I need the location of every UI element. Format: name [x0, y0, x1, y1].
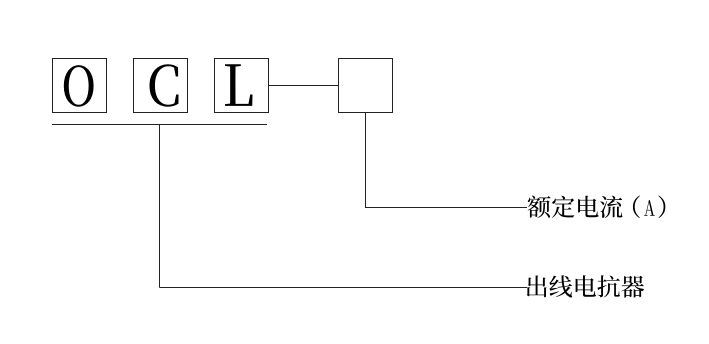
label text char 电	[576, 275, 596, 297]
wire connector box3 to box4	[269, 85, 339, 87]
label text char （	[633, 196, 640, 219]
letter L	[225, 64, 253, 106]
letter C	[150, 64, 179, 106]
wire horizontal to rated-current label	[365, 207, 527, 209]
label text char 线	[549, 275, 572, 297]
underline under OCL boxes	[52, 124, 267, 126]
box 4 (rated current cell)	[339, 59, 393, 113]
wire horizontal to reactor label	[160, 287, 528, 289]
label text char 抗	[597, 275, 619, 297]
wire vertical from underline	[159, 125, 161, 288]
box 3 (letter L cell)	[215, 59, 269, 113]
label text char ）	[658, 196, 665, 219]
wire vertical from box4 bottom	[365, 113, 367, 208]
label text char 电	[578, 196, 598, 218]
label text char A	[644, 200, 655, 216]
label text char 出	[527, 275, 547, 297]
box 2 (letter C cell)	[134, 59, 188, 113]
box 1 (letter O cell)	[53, 59, 107, 113]
label text char 流	[600, 196, 622, 218]
letter O	[64, 65, 94, 107]
label text char 额	[528, 196, 551, 218]
label text char 器	[621, 276, 644, 298]
label text char 定	[552, 196, 574, 218]
